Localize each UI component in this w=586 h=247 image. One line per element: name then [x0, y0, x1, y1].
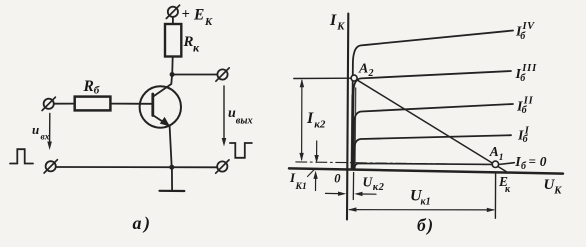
label a) [133, 213, 153, 234]
transistor Q1 circle [140, 86, 181, 127]
terminal T2 top right [216, 68, 229, 81]
label Ib IV [515, 21, 535, 42]
label Ib II [516, 95, 534, 116]
Uk2 tick [352, 173, 354, 200]
label Ib=0 [514, 153, 547, 172]
label A2 [358, 62, 374, 80]
Uk2 right arrow [354, 192, 376, 196]
point A1 [492, 161, 498, 167]
svg-text:к2: к2 [373, 182, 385, 193]
label u_vyx [228, 106, 253, 126]
wire terminal to Rk [172, 17, 174, 25]
svg-text:К: К [553, 186, 562, 197]
label Uk1 [410, 188, 431, 208]
base wire [110, 103, 151, 105]
wire Rk to collector node [171, 57, 174, 75]
label Ik [329, 12, 345, 32]
wire T5 to Rb [54, 103, 75, 105]
label Rk [183, 34, 201, 54]
svg-text:I: I [329, 12, 337, 29]
terminal T4 bottom right [216, 160, 229, 173]
svg-text:A: A [489, 144, 499, 159]
svg-text:E: E [193, 7, 204, 24]
curve Ib III [352, 71, 511, 169]
svg-text:0: 0 [540, 154, 547, 169]
svg-text:1: 1 [499, 153, 504, 163]
wire node to T2 [172, 74, 217, 76]
svg-text:A: A [358, 62, 368, 77]
Uk1 dimension line [348, 207, 495, 212]
svg-text:I: I [306, 110, 314, 127]
node emitter rail [169, 165, 174, 170]
Uk2 left arrow [326, 192, 347, 196]
dash-dot line Ik1 level [296, 162, 493, 165]
svg-text:R: R [183, 34, 194, 50]
svg-text:к: к [193, 40, 200, 54]
point A2 [351, 75, 357, 81]
label Ib I [517, 126, 530, 145]
svg-text:б): б) [417, 215, 435, 235]
Ik2 dimension arrow [299, 79, 304, 161]
svg-text:2: 2 [368, 68, 374, 79]
curve Ib II [353, 104, 513, 169]
curve Ib=0 tail to label [499, 163, 515, 165]
label Uk2 [363, 175, 385, 194]
svg-text:R: R [83, 78, 94, 95]
ground [160, 167, 185, 191]
svg-text:+: + [182, 7, 190, 23]
resistor Rk [165, 24, 181, 57]
svg-text:К1: К1 [295, 182, 307, 192]
bottom rail wire [56, 166, 217, 168]
emitter wire [170, 126, 172, 167]
transistor base bar [151, 94, 154, 116]
curve Ib=0 [354, 163, 492, 168]
Ik1 lower arrow [313, 171, 317, 191]
svg-text:вх: вх [41, 133, 50, 143]
label 0 origin [334, 171, 341, 185]
label Uk [544, 177, 563, 197]
svg-text:к1: к1 [421, 197, 431, 208]
svg-text:б: б [94, 85, 100, 97]
svg-text:К: К [204, 17, 213, 28]
node collector junction [170, 72, 175, 77]
load line A2 to Ek [354, 78, 506, 171]
Ek tick below axis [494, 172, 496, 218]
terminal T1 top +Ek [166, 5, 179, 18]
label b) [417, 215, 435, 235]
collector wire [153, 75, 172, 97]
input pulse symbol [10, 149, 33, 163]
svg-text:0: 0 [334, 171, 341, 185]
y axis Ik [347, 14, 348, 220]
resistor Rb [75, 97, 111, 111]
label A1 [489, 144, 504, 163]
x axis Uk [289, 168, 563, 173]
u_vyx arrow [222, 86, 227, 147]
label Ik1 with leader [289, 170, 307, 192]
input terminal T5 [42, 97, 55, 110]
emitter line with arrow [153, 115, 169, 126]
curve Ib I [354, 135, 511, 168]
label Ek [498, 174, 511, 195]
label Ib III [515, 63, 538, 84]
terminal T3 bottom left [44, 160, 57, 173]
Ik1 upper arrow [314, 141, 318, 163]
svg-text:к2: к2 [314, 118, 326, 130]
saturation band thickening [354, 88, 357, 169]
svg-text:u: u [228, 106, 236, 121]
label +Ek [182, 7, 214, 29]
curve Ib IV [352, 31, 513, 169]
label u_vx [32, 122, 50, 143]
svg-text:К: К [336, 22, 345, 33]
svg-text:u: u [32, 122, 39, 137]
svg-text:=: = [529, 153, 536, 168]
ref line A2 level [294, 77, 353, 79]
svg-text:вых: вых [236, 116, 253, 127]
svg-text:а): а) [133, 213, 153, 234]
u_vx arrow [47, 114, 52, 151]
label Ik2 [306, 110, 326, 130]
output pulse symbol [230, 143, 252, 158]
label Rb [83, 78, 100, 97]
